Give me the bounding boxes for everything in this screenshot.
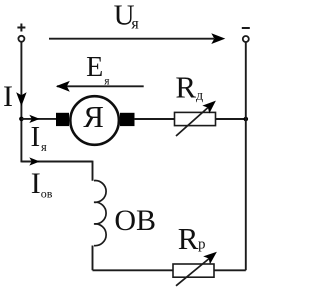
- terminal - (negative supply): [242, 28, 250, 42]
- arrowhead I_ов: [29, 157, 40, 165]
- wire U arrow line: [49, 38, 214, 40]
- svg-text:я: я: [41, 140, 47, 154]
- wire left vertical: [20, 42, 22, 163]
- svg-text:я: я: [104, 76, 110, 88]
- svg-text:Я: Я: [83, 99, 104, 134]
- svg-text:д: д: [196, 89, 203, 104]
- svg-text:ов: ов: [41, 187, 53, 201]
- svg-text:R: R: [178, 221, 199, 256]
- bottom wire: [93, 269, 246, 271]
- svg-text:я: я: [131, 15, 139, 32]
- svg-text:I: I: [31, 121, 41, 153]
- junction node right: [244, 117, 249, 122]
- arrow I (down): [16, 92, 26, 106]
- motor armature Я circle: [70, 96, 119, 145]
- arrow E_я: [57, 85, 144, 87]
- field winding ОВ coil: [92, 161, 94, 271]
- rheostat R_д: [175, 112, 216, 125]
- svg-text:р: р: [198, 236, 206, 252]
- arrowhead I_я: [29, 115, 40, 123]
- wire R_д to right vertical: [216, 118, 246, 120]
- wire junction to armature: [21, 118, 57, 120]
- arrowhead U: [211, 33, 225, 44]
- motor armature brush right: [120, 113, 135, 126]
- rheostat R_р: [173, 264, 214, 277]
- motor armature brush left: [56, 113, 69, 126]
- wire armature to R_d: [134, 118, 175, 120]
- junction node left: [19, 117, 24, 122]
- svg-text:I: I: [3, 80, 13, 113]
- wire to field winding (left bottom horizontal): [21, 161, 92, 163]
- wire right vertical: [245, 42, 247, 270]
- terminal + (positive supply): [17, 24, 25, 42]
- svg-text:R: R: [175, 69, 196, 104]
- svg-text:I: I: [31, 167, 41, 200]
- svg-text:E: E: [86, 52, 103, 83]
- svg-text:ОВ: ОВ: [114, 204, 156, 237]
